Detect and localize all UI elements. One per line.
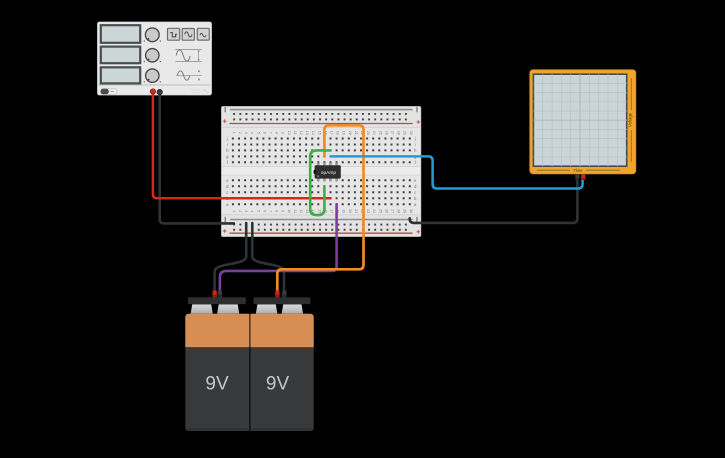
svg-text:3: 3 xyxy=(244,210,248,212)
svg-text:13: 13 xyxy=(305,209,309,213)
svg-text:d: d xyxy=(414,184,417,189)
svg-text:27: 27 xyxy=(391,209,395,213)
svg-text:Time: Time xyxy=(573,168,583,173)
svg-text:h: h xyxy=(226,148,229,153)
breadboard row letters xyxy=(226,136,417,207)
svg-text:12: 12 xyxy=(299,131,303,135)
function generator display 3 xyxy=(101,67,140,83)
svg-text:1: 1 xyxy=(232,132,236,134)
svg-text:4: 4 xyxy=(250,132,254,134)
battery BT1 9V xyxy=(185,297,249,431)
function generator logo xyxy=(191,89,209,93)
node oscilloscope positive terminal xyxy=(581,174,585,180)
svg-text:21: 21 xyxy=(354,131,358,135)
svg-text:13: 13 xyxy=(305,131,309,135)
svg-text:8: 8 xyxy=(275,210,279,212)
svg-text:6: 6 xyxy=(262,210,266,212)
svg-text:12: 12 xyxy=(299,209,303,213)
svg-text:30: 30 xyxy=(409,131,413,135)
svg-text:20: 20 xyxy=(348,209,352,213)
breadboard top rail positive line xyxy=(223,119,420,123)
node battery BT1 positive wire cap xyxy=(213,290,217,297)
svg-text:23: 23 xyxy=(366,209,370,213)
battery BT2 9V xyxy=(250,297,313,431)
function generator knob 1 xyxy=(144,28,161,42)
svg-text:21: 21 xyxy=(354,209,358,213)
svg-text:18: 18 xyxy=(336,131,340,135)
svg-text:11: 11 xyxy=(293,131,297,135)
svg-text:15: 15 xyxy=(317,131,321,135)
svg-text:7: 7 xyxy=(269,132,273,134)
svg-text:17: 17 xyxy=(330,131,334,135)
svg-text:25: 25 xyxy=(378,131,382,135)
breadboard top rail negative line xyxy=(225,107,417,112)
svg-text:14: 14 xyxy=(311,131,315,135)
svg-text:10: 10 xyxy=(287,131,291,135)
wire black from function generator negative terminal to breadboard bottom rail xyxy=(160,92,234,223)
svg-text:26: 26 xyxy=(384,209,388,213)
function generator button triangle-wave xyxy=(197,28,209,40)
svg-text:e: e xyxy=(226,178,229,183)
function generator display 1 xyxy=(101,25,140,43)
svg-text:9: 9 xyxy=(281,210,285,212)
breadboard main grid holes xyxy=(232,138,411,206)
svg-text:23: 23 xyxy=(366,131,370,135)
node function generator positive terminal xyxy=(150,89,155,94)
svg-text:15: 15 xyxy=(317,209,321,213)
node oscilloscope negative terminal xyxy=(575,174,579,180)
node battery BT2 negative wire cap xyxy=(282,290,286,297)
svg-text:i: i xyxy=(227,142,228,147)
wire black from breadboard bottom rail to battery BT1 positive terminal xyxy=(215,223,247,292)
svg-text:g: g xyxy=(226,154,229,159)
svg-text:24: 24 xyxy=(372,131,376,135)
op-amp U1 xyxy=(314,163,341,182)
svg-text:11: 11 xyxy=(293,209,297,213)
svg-text:9V: 9V xyxy=(266,374,290,395)
svg-text:7: 7 xyxy=(269,210,273,212)
svg-text:8: 8 xyxy=(275,132,279,134)
wire blue from breadboard row g col 17 to oscilloscope positive terminal xyxy=(331,156,583,188)
svg-text:a: a xyxy=(414,202,417,207)
breadboard BB1 xyxy=(222,107,421,237)
svg-text:25: 25 xyxy=(378,209,382,213)
svg-text:29: 29 xyxy=(403,209,407,213)
svg-text:24: 24 xyxy=(372,209,376,213)
function generator FG1 xyxy=(98,22,212,95)
svg-text:5: 5 xyxy=(256,210,260,212)
svg-text:Voltage: Voltage xyxy=(627,112,632,127)
function generator amplitude icon xyxy=(175,49,202,61)
svg-text:10: 10 xyxy=(287,209,291,213)
node battery BT1 negative wire cap xyxy=(218,290,222,297)
svg-text:20: 20 xyxy=(348,131,352,135)
svg-text:b: b xyxy=(414,196,417,201)
svg-text:9: 9 xyxy=(281,132,285,134)
wire green from breadboard row h col 17 to row d col 16 xyxy=(310,150,330,215)
svg-text:3: 3 xyxy=(244,132,248,134)
wire black from breadboard bottom rail to battery BT2 negative terminal xyxy=(252,223,284,292)
svg-text:a: a xyxy=(226,202,229,207)
svg-text:e: e xyxy=(414,178,417,183)
svg-text:d: d xyxy=(226,184,229,189)
node battery BT2 positive wire cap xyxy=(275,290,279,297)
svg-text:6: 6 xyxy=(262,132,266,134)
oscilloscope SCOPE1 xyxy=(530,70,636,174)
svg-text:h: h xyxy=(414,148,417,153)
svg-text:4: 4 xyxy=(250,210,254,212)
svg-text:2: 2 xyxy=(238,210,242,212)
svg-text:27: 27 xyxy=(391,131,395,135)
svg-text:1: 1 xyxy=(232,210,236,212)
node function generator negative terminal xyxy=(157,89,162,94)
function generator knob 3 xyxy=(144,69,161,83)
svg-text:5: 5 xyxy=(256,132,260,134)
svg-text:i: i xyxy=(415,142,416,147)
svg-text:28: 28 xyxy=(397,209,401,213)
wire orange from breadboard row g col 16 to battery BT2 positive terminal xyxy=(277,125,363,291)
svg-text:19: 19 xyxy=(342,209,346,213)
breadboard column numbers xyxy=(232,131,413,213)
svg-text:j: j xyxy=(226,136,228,141)
breadboard bottom rail negative line xyxy=(225,217,417,222)
function generator power switch xyxy=(100,89,117,95)
function generator display 2 xyxy=(101,47,140,64)
function generator button sine-wave xyxy=(182,29,194,41)
wire purple from breadboard row a col 18 to battery BT1 negative terminal xyxy=(220,204,337,291)
svg-text:30: 30 xyxy=(409,209,413,213)
function generator knob 2 xyxy=(144,49,161,63)
svg-text:17: 17 xyxy=(330,209,334,213)
wire black from oscilloscope negative terminal to breadboard bottom rail right end xyxy=(410,177,578,223)
svg-text:19: 19 xyxy=(342,131,346,135)
wire red from function generator positive terminal to breadboard row b col 17 xyxy=(153,92,331,199)
svg-text:29: 29 xyxy=(403,131,407,135)
svg-text:j: j xyxy=(414,136,416,141)
svg-text:opAmp: opAmp xyxy=(321,170,337,176)
svg-text:9V: 9V xyxy=(205,374,229,395)
breadboard power rail holes xyxy=(233,113,407,231)
function generator button square-wave xyxy=(168,28,180,40)
svg-text:28: 28 xyxy=(397,131,401,135)
svg-text:26: 26 xyxy=(384,131,388,135)
function generator offset icon xyxy=(176,70,202,80)
breadboard bottom rail positive line xyxy=(223,229,420,233)
svg-text:2: 2 xyxy=(238,132,242,134)
